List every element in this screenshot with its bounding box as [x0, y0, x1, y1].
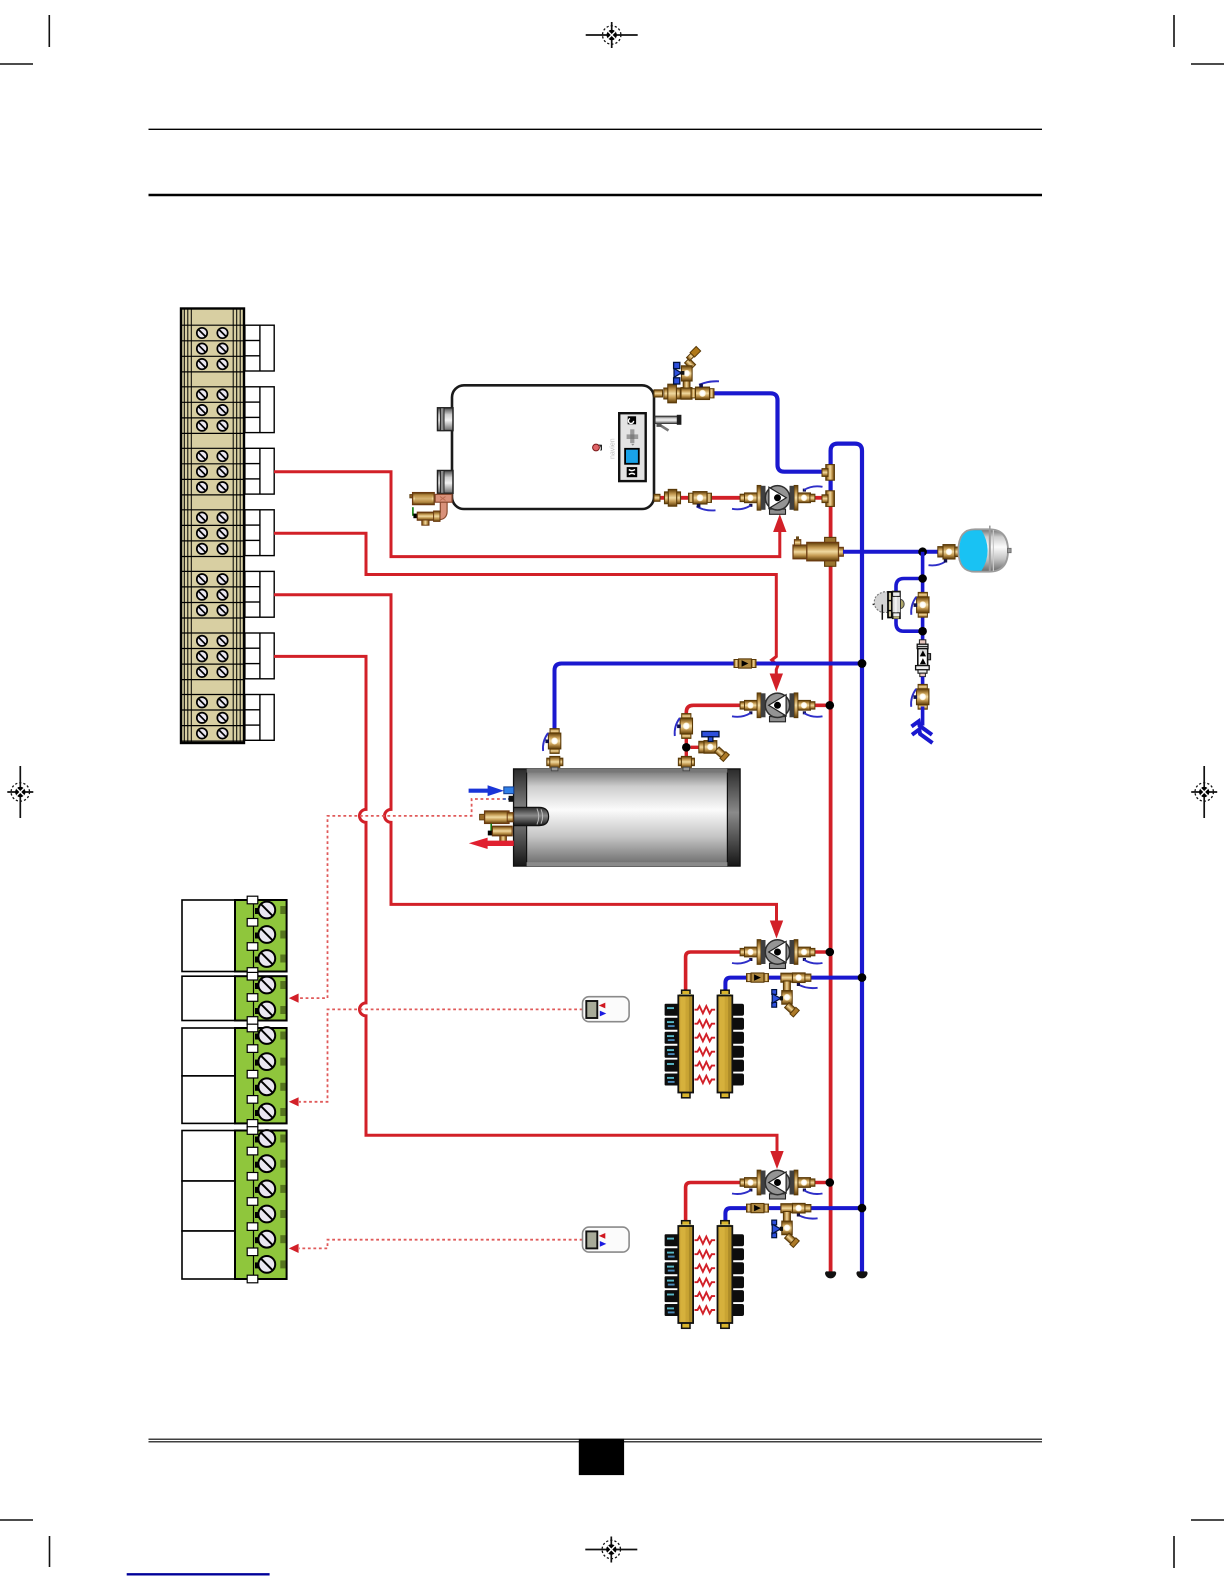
svg-text:navien: navien: [610, 438, 617, 459]
